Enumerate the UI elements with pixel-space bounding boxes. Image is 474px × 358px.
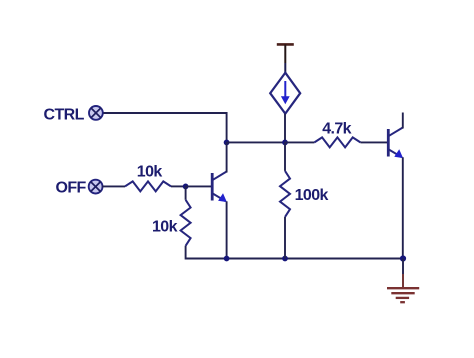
wire R4 to bottom rail [284,217,286,259]
wire supply to current source [284,63,286,73]
resistor 4.7k [314,137,360,147]
wire node A to R4 [284,142,286,171]
power supply terminal [277,44,294,63]
junction node A [282,140,288,146]
wire Q2 emitter to ground node [402,157,404,258]
transistor Q2 [388,113,403,159]
wire node C to R2 [185,186,187,199]
transistor Q1 [212,172,227,203]
wire R3 to Q2 base [360,141,387,143]
ground [387,288,419,302]
junction ground node [400,255,406,261]
resistor 10k vertical R2 [181,200,191,246]
resistor 10k horizontal R1 [125,181,171,191]
svg-text:CTRL: CTRL [44,107,85,124]
junction node C [183,184,189,190]
wire node C to Q1 base [186,185,211,187]
junction node B [224,140,230,146]
svg-text:4.7k: 4.7k [322,121,351,138]
svg-text:10k: 10k [152,218,178,235]
wire OFF to R1 [102,185,125,187]
wire Q1 emitter to bottom rail [226,201,228,258]
wire Q1 collector to node B [226,142,228,172]
wire node A to R3 [285,141,314,143]
terminal OFF [89,180,103,194]
wire current source to node A [284,114,286,143]
wire ground stem [402,259,404,289]
wire node B to node A [227,141,285,143]
terminal CTRL [89,106,103,120]
wire CTRL to node B [103,113,226,142]
junction bottom rail / R4 [282,256,288,262]
svg-text:10k: 10k [137,164,163,181]
resistor 100k vertical R4 [280,171,290,217]
wire R2 to bottom rail [186,246,403,259]
junction bottom rail / Q1 emitter [224,256,230,262]
wire R1 to node C [171,185,186,187]
svg-text:OFF: OFF [56,180,87,197]
current source I1 [270,73,300,114]
svg-text:100k: 100k [295,187,329,204]
